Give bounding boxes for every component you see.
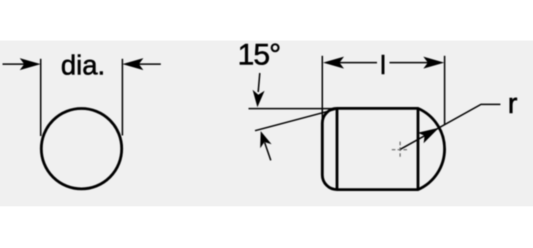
- radius leader line: [400, 104, 500, 149]
- svg-text:l: l: [380, 50, 386, 80]
- svg-text:r: r: [508, 88, 518, 120]
- extension line right (l): [444, 56, 446, 125]
- extension line left (dia.): [40, 59, 42, 136]
- svg-text:dia.: dia.: [61, 49, 105, 80]
- dimension arrow left (dia.): [3, 58, 41, 70]
- dimension arrow right (dia.): [122, 58, 160, 70]
- radius leader arrowhead: [418, 128, 439, 143]
- chamfer line: [336, 108, 339, 189]
- arrow pointing up at sloped line: [260, 131, 271, 160]
- leader arrow down from 15deg: [253, 73, 265, 107]
- body outline (side view): [322, 108, 444, 189]
- extension line left (l): [321, 56, 323, 120]
- dimension line l with arrows: [323, 57, 444, 69]
- angle sloped line (15 deg): [255, 109, 336, 130]
- background band: [0, 41, 533, 207]
- angle datum line (horizontal): [249, 108, 336, 110]
- sphere center mark (cross): [392, 142, 409, 158]
- end-view circle (dia.): [41, 109, 121, 189]
- sphere junction line: [417, 108, 420, 189]
- extension line right (dia.): [121, 59, 123, 136]
- svg-text:15°: 15°: [238, 39, 281, 72]
